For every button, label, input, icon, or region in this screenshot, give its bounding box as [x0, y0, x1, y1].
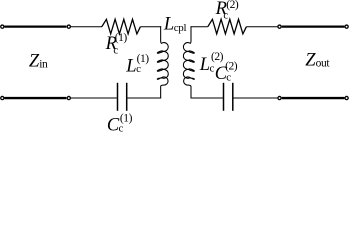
- wire top-left thick port lead: [5, 25, 67, 27]
- svg-text:Zin: Zin: [29, 51, 48, 71]
- node C terminal circle: [67, 96, 70, 99]
- wire bottom-right thick port lead: [282, 97, 345, 99]
- capacitor C_c^(2) plate 1: [223, 83, 225, 111]
- node P2 minus outer terminal circle: [345, 96, 348, 99]
- capacitor C_c^(2) plate 2: [232, 83, 234, 111]
- resistor R_c^(1): [102, 19, 141, 34]
- svg-text:Lc(1): Lc(1): [125, 53, 149, 76]
- capacitor C_c^(1) plate 1: [117, 83, 119, 111]
- wire bottom from terminal to C1: [71, 97, 117, 99]
- wire top-right thick port lead: [282, 25, 345, 27]
- wire bottom from right coil to C2: [191, 97, 223, 99]
- node A terminal circle: [67, 25, 70, 28]
- svg-text:Cc(1): Cc(1): [107, 112, 133, 132]
- inductor L_c^(1) coil with stems: [157, 26, 168, 98]
- wire bottom from C1 to left coil: [127, 97, 161, 99]
- node P2 minus terminal circle: [278, 96, 281, 99]
- svg-text:Rc(1): Rc(1): [105, 32, 128, 57]
- node P2 plus terminal circle: [345, 25, 348, 28]
- inductor L_c^(2) coil with stems (mirror of left): [183, 26, 194, 98]
- node B terminal circle: [278, 25, 281, 28]
- svg-text:Cc(2): Cc(2): [215, 61, 238, 84]
- svg-text:Zout: Zout: [305, 51, 330, 71]
- wire top from right coil corner to R2: [191, 26, 208, 28]
- wire bottom-left thick port lead: [5, 97, 67, 99]
- node P1 minus terminal circle: [1, 96, 4, 99]
- resistor R_c^(2): [208, 19, 247, 34]
- capacitor C_c^(1) plate 2: [126, 83, 128, 111]
- wire top from R2 to right terminal: [246, 26, 277, 28]
- svg-text:Rc(2): Rc(2): [215, 0, 239, 21]
- wire top from terminal to R1: [71, 26, 102, 28]
- svg-text:Lcpl: Lcpl: [163, 15, 187, 35]
- wire from R1 to left coil corner: [140, 26, 161, 28]
- node P1 plus terminal circle: [1, 25, 4, 28]
- wire bottom from C2 to right terminal: [233, 97, 277, 99]
